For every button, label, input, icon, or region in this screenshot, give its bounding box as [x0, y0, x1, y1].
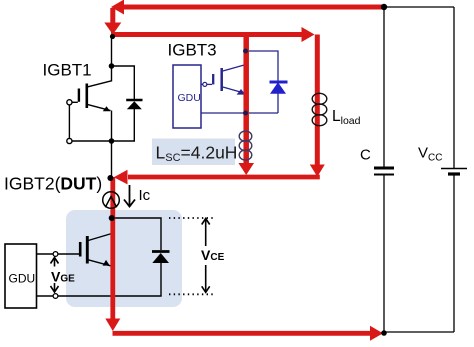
Lsc value label box	[152, 139, 235, 166]
node top-left junction	[110, 34, 115, 39]
node IGBT2 collector	[109, 215, 115, 221]
diode D3 (IGBT3 freewheel)	[270, 82, 288, 94]
IGBT2 emitter terminal circle	[53, 294, 58, 299]
IGBT1 gate terminal circle	[67, 100, 72, 105]
wire IGBT1 emitter tie	[72, 140, 112, 142]
red bottom rail with right arrow	[113, 326, 384, 341]
red drop Lload branch	[310, 35, 325, 177]
current probe chevron	[105, 197, 116, 208]
svg-text:GDU: GDU	[9, 272, 36, 286]
IGBT2 gate terminal circle	[53, 252, 58, 257]
red bus top rail	[111, 0, 384, 15]
arrow Vge up	[51, 258, 59, 267]
GDU box IGBT2	[5, 244, 37, 308]
IGBT1 lower terminal circle	[67, 138, 72, 143]
GDU box IGBT3	[173, 65, 201, 128]
svg-text:C: C	[360, 147, 371, 164]
svg-text:GDU: GDU	[178, 92, 201, 104]
node mid-left junction	[107, 175, 113, 181]
node top C junction	[381, 4, 387, 10]
transistor IGBT3 symbol	[213, 65, 246, 95]
dotted line Vce bottom	[169, 293, 215, 295]
wire GDU emitter lead	[37, 295, 54, 297]
battery Vcc	[441, 169, 467, 175]
wire IGBT3 diode branch	[246, 51, 279, 81]
red drop to node A	[104, 8, 121, 35]
wire IGBT3 emitter return	[201, 112, 278, 114]
wire IGBT2 diode branch	[112, 218, 161, 250]
transistor IGBT2 symbol	[80, 234, 112, 266]
wire top rail C to Vcc	[384, 6, 454, 8]
diode D2 (IGBT2 freewheel)	[152, 252, 170, 264]
arrow Vce down	[202, 265, 210, 292]
svg-text:IGBT3: IGBT3	[168, 40, 217, 59]
wire IGBT1 gate	[72, 101, 78, 103]
node IGBT1 collector	[109, 63, 115, 69]
node IGBT3 collector	[243, 49, 248, 54]
wire main left vertical	[111, 36, 113, 82]
arrow Vce up	[202, 219, 210, 247]
arrow Vge down	[51, 283, 59, 292]
transistor IGBT1 symbol	[79, 81, 112, 112]
wire GDU gate lead	[37, 253, 54, 255]
wire IGBT3 gate lead	[201, 83, 203, 85]
node IGBT1 emitter	[109, 138, 115, 144]
capacitor C	[374, 168, 394, 175]
node bottom junction	[381, 330, 387, 336]
wire C branch upper	[383, 7, 385, 167]
wire IGBT1 diode branch	[112, 66, 135, 99]
wire IGBT3 gate	[207, 83, 212, 85]
diode D1 (IGBT1 freewheel)	[126, 100, 142, 109]
inductor Lsc coil	[239, 131, 252, 160]
wire Vcc branch lower	[453, 174, 455, 332]
wire gate circle to gate	[58, 253, 79, 255]
svg-text:IGBT1: IGBT1	[43, 60, 92, 79]
wire IGBT2 collector stub	[111, 218, 113, 234]
wire bottom rail C to Vcc	[384, 331, 454, 333]
arrow Ic	[124, 185, 135, 207]
dotted line Vce top	[169, 217, 215, 219]
wire IGBT2 emitter stub	[111, 266, 113, 296]
IGBT2 DUT highlight box	[66, 210, 182, 307]
red drop IGBT3 branch	[238, 37, 254, 175]
red mid rail with left arrow	[114, 170, 320, 185]
IGBT3 gate terminal circle	[203, 82, 207, 86]
svg-text:IGBT2(DUT): IGBT2(DUT)	[4, 174, 102, 194]
wire Vcc branch upper	[453, 7, 455, 168]
current probe circle	[103, 192, 120, 209]
red drop through DUT	[105, 177, 120, 331]
wire IGBT1 gate-emitter short	[68, 105, 70, 138]
node IGBT3 emitter	[243, 111, 248, 116]
svg-text:Ic: Ic	[139, 187, 151, 204]
wire C branch lower	[383, 175, 385, 333]
inductor Lload coil	[312, 93, 327, 125]
red bus second rail with right arrow	[111, 27, 315, 42]
